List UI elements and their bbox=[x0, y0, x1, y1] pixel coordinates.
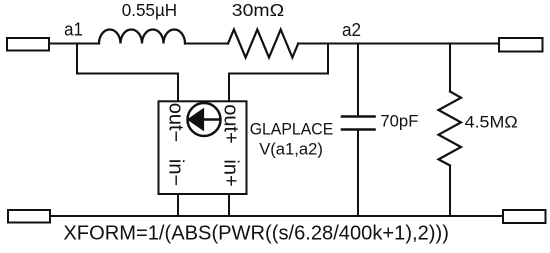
wire in+ pin to bottom rail bbox=[228, 194, 230, 216]
svg-text:70pF: 70pF bbox=[380, 112, 418, 131]
wire top rail left bbox=[49, 43, 99, 45]
svg-text:out−: out− bbox=[165, 103, 187, 142]
svg-text:30mΩ: 30mΩ bbox=[232, 0, 284, 20]
wire top rail right bbox=[298, 43, 499, 45]
svg-text:4.5MΩ: 4.5MΩ bbox=[465, 113, 518, 132]
resistor R 30mΩ bbox=[228, 30, 298, 58]
inductor L 0.55µH bbox=[99, 30, 185, 44]
capacitor bottom wire bbox=[357, 131, 359, 216]
svg-text:out+: out+ bbox=[220, 104, 242, 143]
capacitor C 70pF plates bbox=[342, 115, 375, 118]
capacitor top wire bbox=[357, 44, 359, 116]
terminal bottom-left bbox=[8, 210, 50, 223]
current source circle bbox=[188, 103, 221, 136]
svg-text:XFORM=1/(ABS(PWR((s/6.28/400k+: XFORM=1/(ABS(PWR((s/6.28/400k+1),2))) bbox=[63, 223, 449, 245]
current source arrow bbox=[203, 118, 220, 120]
wire jog top rail to out+ pin bbox=[229, 44, 328, 102]
resistor 4.5MΩ bottom wire bbox=[449, 166, 451, 217]
svg-text:a2: a2 bbox=[342, 19, 361, 40]
svg-text:0.55µH: 0.55µH bbox=[122, 0, 177, 20]
terminal bottom-right bbox=[503, 210, 546, 223]
svg-text:a1: a1 bbox=[64, 19, 83, 40]
svg-text:in+: in+ bbox=[220, 159, 242, 186]
wire in− pin to bottom rail bbox=[177, 194, 179, 216]
resistor 4.5MΩ top wire bbox=[449, 44, 451, 92]
wire inductor to resistor bbox=[185, 43, 228, 45]
GLAPLACE source box bbox=[159, 101, 247, 194]
wire node a1 to jog bbox=[77, 44, 178, 102]
svg-text:GLAPLACE: GLAPLACE bbox=[250, 119, 334, 138]
svg-text:in−: in− bbox=[165, 159, 187, 186]
svg-text:V(a1,a2): V(a1,a2) bbox=[259, 140, 323, 159]
resistor R 4.5MΩ zigzag bbox=[439, 92, 462, 166]
terminal top-right bbox=[499, 38, 543, 52]
bottom rail wire bbox=[50, 215, 503, 217]
terminal top-left bbox=[7, 38, 49, 51]
